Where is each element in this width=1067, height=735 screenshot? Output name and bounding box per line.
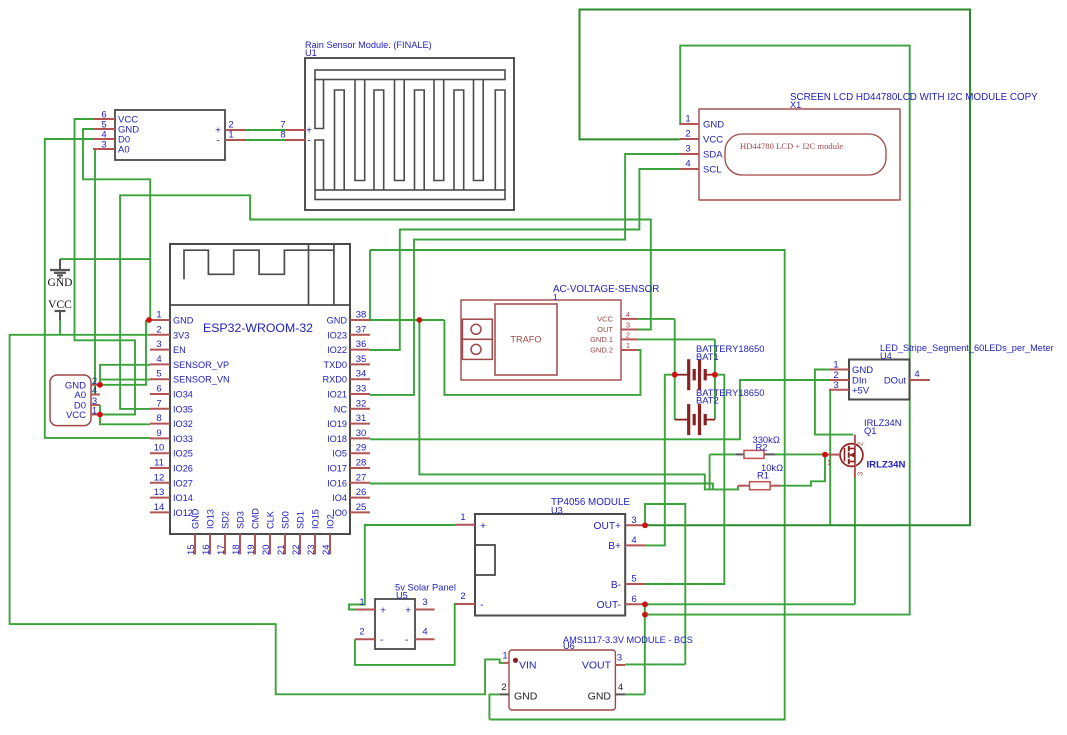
svg-text:1: 1	[553, 292, 558, 302]
svg-text:2: 2	[626, 330, 630, 339]
svg-text:VOUT: VOUT	[582, 660, 612, 672]
svg-text:SCL: SCL	[703, 165, 721, 176]
svg-text:32: 32	[356, 398, 367, 409]
svg-text:3: 3	[101, 140, 106, 151]
svg-text:1: 1	[92, 406, 97, 417]
svg-text:9: 9	[156, 428, 161, 439]
svg-text:SD3: SD3	[236, 511, 246, 529]
svg-text:-: -	[307, 136, 310, 147]
svg-text:-: -	[380, 634, 384, 646]
svg-text:OUT+: OUT+	[594, 521, 622, 532]
svg-text:-: -	[480, 599, 484, 611]
svg-text:7: 7	[156, 398, 161, 409]
svg-text:EN: EN	[173, 345, 186, 355]
svg-text:2: 2	[359, 627, 364, 638]
svg-text:-: -	[405, 634, 409, 646]
svg-text:3: 3	[626, 321, 630, 330]
svg-text:GND: GND	[48, 277, 73, 289]
svg-text:+5V: +5V	[852, 385, 870, 396]
svg-text:4: 4	[631, 535, 636, 546]
svg-text:LED_Stripe_Segment_60LEDs_per_: LED_Stripe_Segment_60LEDs_per_Meter	[880, 343, 1054, 353]
svg-text:BAT1: BAT1	[696, 351, 719, 362]
svg-text:AC-VOLTAGE-SENSOR: AC-VOLTAGE-SENSOR	[553, 284, 659, 295]
svg-text:1: 1	[827, 458, 831, 467]
svg-text:3: 3	[422, 597, 427, 608]
svg-text:VCC: VCC	[703, 135, 723, 146]
svg-text:33: 33	[356, 384, 367, 395]
svg-text:OUT: OUT	[597, 325, 613, 334]
svg-text:IO22: IO22	[327, 345, 347, 355]
svg-text:Rain Sensor Module. (FINALE): Rain Sensor Module. (FINALE)	[305, 40, 432, 50]
svg-text:3: 3	[685, 144, 690, 155]
svg-text:BAT2: BAT2	[696, 395, 719, 406]
svg-text:19: 19	[246, 544, 257, 555]
svg-text:A0: A0	[74, 390, 86, 401]
svg-text:GND.2: GND.2	[590, 346, 613, 355]
svg-text:U6: U6	[563, 641, 575, 651]
svg-text:1: 1	[359, 597, 364, 608]
svg-text:B-: B-	[611, 580, 621, 591]
svg-text:38: 38	[356, 310, 367, 321]
svg-text:3: 3	[631, 515, 636, 526]
svg-text:IO32: IO32	[173, 419, 193, 429]
svg-text:12: 12	[154, 472, 165, 483]
svg-text:GND.1: GND.1	[590, 335, 613, 344]
svg-text:IO23: IO23	[327, 330, 347, 340]
svg-text:U1: U1	[305, 48, 317, 58]
svg-text:ESP32-WROOM-32: ESP32-WROOM-32	[203, 321, 313, 335]
svg-text:5: 5	[156, 369, 161, 380]
svg-text:RXD0: RXD0	[322, 375, 347, 385]
svg-text:IO14: IO14	[173, 493, 193, 503]
svg-text:TP4056 MODULE: TP4056 MODULE	[551, 497, 630, 508]
svg-text:22: 22	[291, 544, 302, 555]
svg-text:18: 18	[231, 544, 242, 555]
svg-text:34: 34	[356, 369, 367, 380]
svg-text:IO18: IO18	[327, 434, 347, 444]
svg-text:6: 6	[156, 384, 161, 395]
svg-text:AMS1117-3.3V MODULE - BCS: AMS1117-3.3V MODULE - BCS	[563, 635, 693, 645]
svg-text:24: 24	[321, 544, 332, 555]
svg-text:3: 3	[856, 472, 865, 476]
svg-text:28: 28	[356, 458, 367, 469]
svg-text:37: 37	[356, 324, 367, 335]
svg-text:U5: U5	[396, 591, 408, 601]
svg-text:5: 5	[631, 574, 636, 585]
svg-text:GND: GND	[191, 508, 201, 529]
svg-text:VCC: VCC	[597, 314, 613, 323]
svg-text:U4: U4	[880, 351, 892, 361]
svg-text:17: 17	[216, 544, 227, 555]
svg-text:TXD0: TXD0	[324, 360, 348, 370]
svg-text:+: +	[405, 605, 411, 617]
svg-text:IO27: IO27	[173, 478, 193, 488]
svg-text:IO17: IO17	[327, 464, 347, 474]
svg-text:IO25: IO25	[173, 449, 193, 459]
svg-text:IO16: IO16	[327, 478, 347, 488]
svg-text:3: 3	[833, 380, 838, 391]
svg-text:31: 31	[356, 413, 367, 424]
svg-text:-: -	[216, 136, 219, 147]
svg-text:4: 4	[156, 354, 161, 365]
svg-text:4: 4	[626, 310, 630, 319]
svg-text:TRAFO: TRAFO	[510, 335, 541, 345]
svg-text:16: 16	[201, 544, 212, 555]
svg-text:B+: B+	[608, 541, 621, 552]
svg-text:NC: NC	[334, 404, 348, 414]
svg-text:IO13: IO13	[206, 509, 216, 529]
svg-text:14: 14	[154, 502, 165, 513]
svg-text:2: 2	[856, 442, 865, 446]
svg-text:IO2: IO2	[326, 514, 336, 529]
svg-text:IO34: IO34	[173, 390, 193, 400]
svg-text:1: 1	[626, 341, 630, 350]
svg-text:20: 20	[261, 544, 272, 555]
svg-text:2: 2	[501, 682, 506, 693]
svg-text:4: 4	[914, 369, 919, 380]
svg-text:1: 1	[460, 512, 465, 523]
svg-text:GND: GND	[173, 316, 194, 326]
svg-text:1: 1	[228, 130, 233, 141]
svg-text:HD44780 LCD + I2C module: HD44780 LCD + I2C module	[740, 141, 843, 151]
svg-text:SD1: SD1	[296, 511, 306, 529]
svg-text:IO19: IO19	[327, 419, 347, 429]
svg-text:VIN: VIN	[519, 660, 537, 672]
svg-text:CLK: CLK	[266, 510, 276, 529]
svg-text:IO33: IO33	[173, 434, 193, 444]
svg-text:GND: GND	[514, 691, 538, 703]
svg-text:DOut: DOut	[884, 376, 907, 387]
svg-text:GND: GND	[588, 691, 612, 703]
svg-text:R1: R1	[757, 470, 769, 481]
svg-text:IO21: IO21	[327, 390, 347, 400]
svg-text:U3: U3	[551, 506, 563, 516]
svg-text:+: +	[380, 605, 386, 617]
svg-text:1: 1	[502, 651, 507, 662]
svg-text:6: 6	[631, 594, 636, 605]
svg-text:36: 36	[356, 339, 367, 350]
svg-text:4: 4	[92, 386, 97, 397]
svg-text:1: 1	[156, 310, 161, 321]
svg-text:SD0: SD0	[281, 511, 291, 529]
svg-text:SDA: SDA	[703, 150, 723, 161]
svg-text:8: 8	[280, 130, 285, 141]
svg-text:SENSOR_VN: SENSOR_VN	[173, 375, 230, 385]
svg-text:25: 25	[356, 502, 367, 513]
svg-text:SD2: SD2	[221, 511, 231, 529]
svg-text:3: 3	[156, 339, 161, 350]
svg-text:15: 15	[186, 544, 197, 555]
svg-text:4: 4	[422, 627, 427, 638]
svg-text:SENSOR_VP: SENSOR_VP	[173, 360, 229, 370]
svg-text:IO5: IO5	[332, 449, 347, 459]
svg-text:IO26: IO26	[173, 464, 193, 474]
svg-text:+: +	[480, 520, 486, 532]
svg-text:A0: A0	[118, 145, 130, 156]
svg-text:2: 2	[460, 591, 465, 602]
svg-text:4: 4	[618, 682, 623, 693]
svg-text:35: 35	[356, 354, 367, 365]
svg-text:8: 8	[156, 413, 161, 424]
svg-text:1: 1	[685, 114, 690, 125]
svg-text:VCC: VCC	[66, 410, 86, 421]
svg-text:R2: R2	[756, 442, 768, 453]
svg-text:1: 1	[833, 360, 838, 371]
svg-text:IRLZ34N: IRLZ34N	[867, 460, 906, 471]
svg-text:OUT-: OUT-	[597, 600, 621, 611]
svg-text:29: 29	[356, 443, 367, 454]
svg-text:CMD: CMD	[251, 508, 261, 529]
svg-text:27: 27	[356, 472, 367, 483]
svg-text:13: 13	[154, 487, 165, 498]
svg-text:GND: GND	[703, 120, 724, 131]
svg-text:3: 3	[617, 653, 622, 664]
svg-text:21: 21	[276, 544, 287, 555]
svg-text:11: 11	[154, 458, 164, 469]
svg-text:IO15: IO15	[311, 509, 321, 529]
svg-text:X1: X1	[790, 100, 801, 110]
svg-text:2: 2	[685, 129, 690, 140]
svg-text:IO4: IO4	[332, 493, 347, 503]
svg-text:Q1: Q1	[864, 425, 877, 436]
svg-text:4: 4	[685, 159, 690, 170]
svg-text:IO35: IO35	[173, 404, 193, 414]
svg-text:GND: GND	[327, 316, 348, 326]
svg-text:10: 10	[154, 443, 165, 454]
svg-text:2: 2	[156, 324, 161, 335]
svg-text:26: 26	[356, 487, 367, 498]
svg-text:VCC: VCC	[48, 299, 72, 311]
svg-text:30: 30	[356, 428, 367, 439]
svg-text:3V3: 3V3	[173, 330, 189, 340]
svg-text:GND: GND	[852, 365, 873, 376]
svg-text:23: 23	[306, 544, 317, 555]
svg-text:SCREEN LCD HD44780LCD WITH I2C: SCREEN LCD HD44780LCD WITH I2C MODULE CO…	[790, 92, 1038, 103]
